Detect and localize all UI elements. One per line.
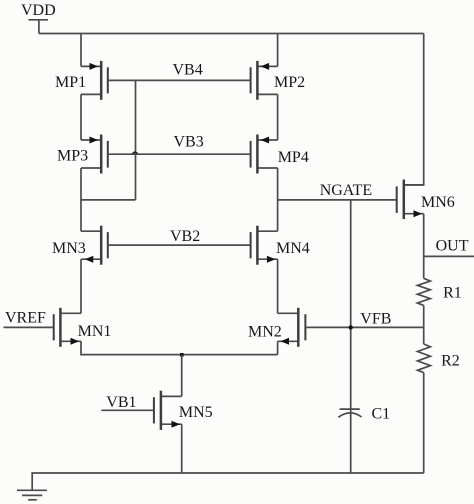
wire R2 bottom to ground rail [423, 373, 425, 473]
transistor MN4 [251, 226, 278, 265]
wire MN5 source drop [181, 424, 183, 473]
svg-text:OUT: OUT [436, 237, 469, 254]
svg-text:NGATE: NGATE [320, 182, 372, 199]
wire MN3 source to MN1 drain [80, 259, 82, 313]
svg-text:MP1: MP1 [55, 74, 86, 91]
wire MP3 drain L to VB4 drop [81, 168, 136, 200]
svg-text:VB3: VB3 [174, 134, 204, 151]
transistor MP4 [251, 135, 278, 174]
resistor R1 [417, 278, 430, 305]
wire MP1 source to MP3 drain [80, 94, 82, 140]
transistor MN5 [154, 391, 182, 430]
svg-text:MN1: MN1 [78, 323, 112, 340]
wire MP4 drain to MN4 drain column [277, 168, 279, 231]
svg-text:MP3: MP3 [57, 147, 88, 164]
svg-text:VREF: VREF [5, 310, 46, 327]
svg-text:R2: R2 [441, 353, 460, 370]
wire net VB4 (MP1 gate to MP2 gate) [108, 79, 251, 81]
wire MP2 source to MP4 drain [277, 94, 279, 140]
wire net VFB (MN2 gate to divider tap) [305, 326, 423, 328]
wire MP3/MN3 drain column [80, 200, 82, 231]
wire net NGATE [278, 199, 397, 201]
wire R1 to R2 (VFB tap) [423, 305, 425, 344]
wire MN2 source drop [277, 341, 279, 354]
wire bottom ground rail [31, 472, 423, 474]
transistor MN3 [81, 226, 108, 265]
resistor R2 [418, 344, 431, 373]
wire MP1 drain drop [80, 34, 82, 67]
svg-text:R1: R1 [443, 284, 462, 301]
svg-text:VDD: VDD [21, 2, 56, 19]
svg-text:VFB: VFB [360, 310, 391, 327]
svg-text:VB1: VB1 [106, 394, 136, 411]
svg-text:MN3: MN3 [52, 240, 86, 257]
svg-text:MN6: MN6 [421, 194, 455, 211]
wire VB4 drop to MP3 drain (crosses VB3 with hop) [135, 80, 137, 199]
wire VDD stem [38, 20, 40, 34]
ground symbol [17, 473, 47, 500]
junction VFB x C1 dot [349, 325, 353, 329]
capacitor C1 [338, 409, 361, 417]
transistor MP1 [81, 61, 108, 100]
transistor MP2 [251, 61, 278, 100]
wire MN1 source to tail [81, 341, 278, 354]
wire net VB3 (MP3 gate to MP4 gate) [108, 153, 251, 155]
svg-text:C1: C1 [372, 406, 391, 423]
wire net VB2 (MN3 gate to MN4 gate) [108, 244, 251, 246]
wire tail to MN5 drain [181, 355, 183, 397]
VDD terminal tick [28, 19, 48, 21]
svg-text:MN2: MN2 [248, 323, 282, 340]
svg-text:VB2: VB2 [170, 228, 200, 245]
transistor MP3 [81, 135, 108, 174]
wire NGATE to C1 branch [350, 200, 352, 473]
wire MN6 source to OUT node [423, 214, 425, 279]
transistor MN1 [54, 308, 81, 347]
svg-text:MP4: MP4 [278, 149, 309, 166]
svg-text:MN4: MN4 [276, 240, 310, 257]
wire input VREF lead [4, 326, 54, 328]
transistor MN6 [397, 180, 424, 220]
svg-text:MN5: MN5 [179, 404, 213, 421]
wire top VDD rail [39, 33, 424, 35]
wire OUT stub [424, 255, 474, 257]
wire hop bump at VB3 crossing [131, 151, 138, 154]
wire right rail to MN6 drain [404, 34, 424, 185]
junction tail node [180, 353, 184, 357]
wire MP2 drain drop [277, 34, 279, 67]
transistor MN2 [278, 308, 306, 347]
svg-text:MP2: MP2 [274, 74, 305, 91]
wire MN4 source to MN2 drain [277, 259, 279, 313]
wire bias VB1 lead [101, 409, 154, 411]
svg-text:VB4: VB4 [173, 62, 203, 79]
